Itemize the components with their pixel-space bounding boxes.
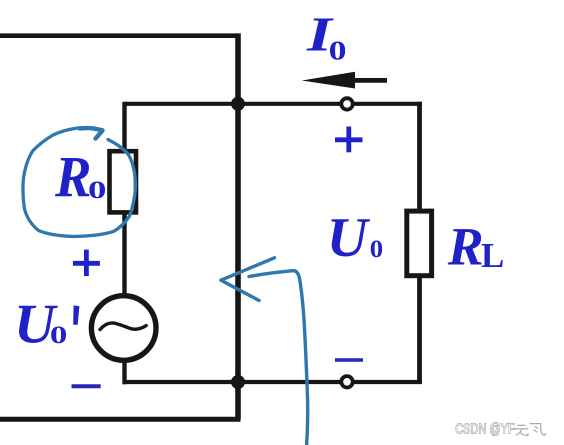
wire right vertical lower (RL bottom down)	[417, 276, 422, 383]
hand-drawn blue loop around R0	[23, 128, 136, 237]
wire upper right horizontal (terminal to RL)	[352, 102, 422, 106]
junction node dot bottom	[231, 375, 245, 389]
plus sign right	[335, 127, 363, 153]
prime mark of U0'	[73, 305, 79, 325]
wire bottom-left horizontal	[0, 417, 241, 422]
svg-text:0: 0	[88, 176, 106, 204]
resistor RL body	[407, 211, 432, 276]
hand-drawn blue arrow head lower stroke	[221, 280, 259, 300]
wire bottom right horizontal (terminal to RL branch)	[352, 380, 422, 384]
hand-drawn loop closing hook arrow	[80, 128, 103, 139]
svg-text:0: 0	[329, 35, 347, 65]
wire left branch: top to R0	[122, 102, 126, 152]
CJK yun glyph (drawn)	[515, 425, 529, 435]
wire left branch: source bottom	[122, 359, 126, 384]
wire bottom node horizontal (source to terminal)	[124, 380, 342, 384]
watermark CSDN @YF yunfei	[455, 420, 546, 437]
AC source U0' circle	[91, 296, 156, 361]
svg-text:0: 0	[50, 321, 67, 349]
wire left branch: R0 to source	[122, 211, 126, 297]
junction node dot top	[231, 97, 245, 111]
svg-text:L: L	[481, 236, 504, 275]
wire middle vertical	[235, 33, 241, 419]
hand-drawn blue arrow shaft curving down	[249, 271, 308, 445]
current arrow I0 (black, pointing left)	[302, 72, 355, 89]
hand-drawn blue arrow head upper stroke	[221, 258, 275, 280]
minus sign left	[72, 384, 101, 388]
AC source sine tilde	[100, 323, 146, 330]
open terminal top	[341, 98, 352, 109]
svg-text:R: R	[54, 145, 91, 209]
plus sign left	[73, 250, 100, 276]
CJK fei glyph (drawn)	[530, 424, 546, 436]
wire right vertical upper (to RL top)	[417, 102, 422, 211]
wire upper node horizontal (R0 top to terminal)	[125, 102, 342, 106]
open terminal bottom	[341, 376, 352, 387]
wire top-left horizontal	[0, 33, 238, 38]
minus sign right	[335, 358, 363, 362]
svg-text:U: U	[327, 207, 371, 269]
svg-text:CSDN @YF: CSDN @YF	[455, 420, 515, 437]
resistor R0 body	[110, 151, 137, 212]
svg-text:0: 0	[370, 235, 383, 263]
svg-text:R: R	[447, 216, 484, 276]
